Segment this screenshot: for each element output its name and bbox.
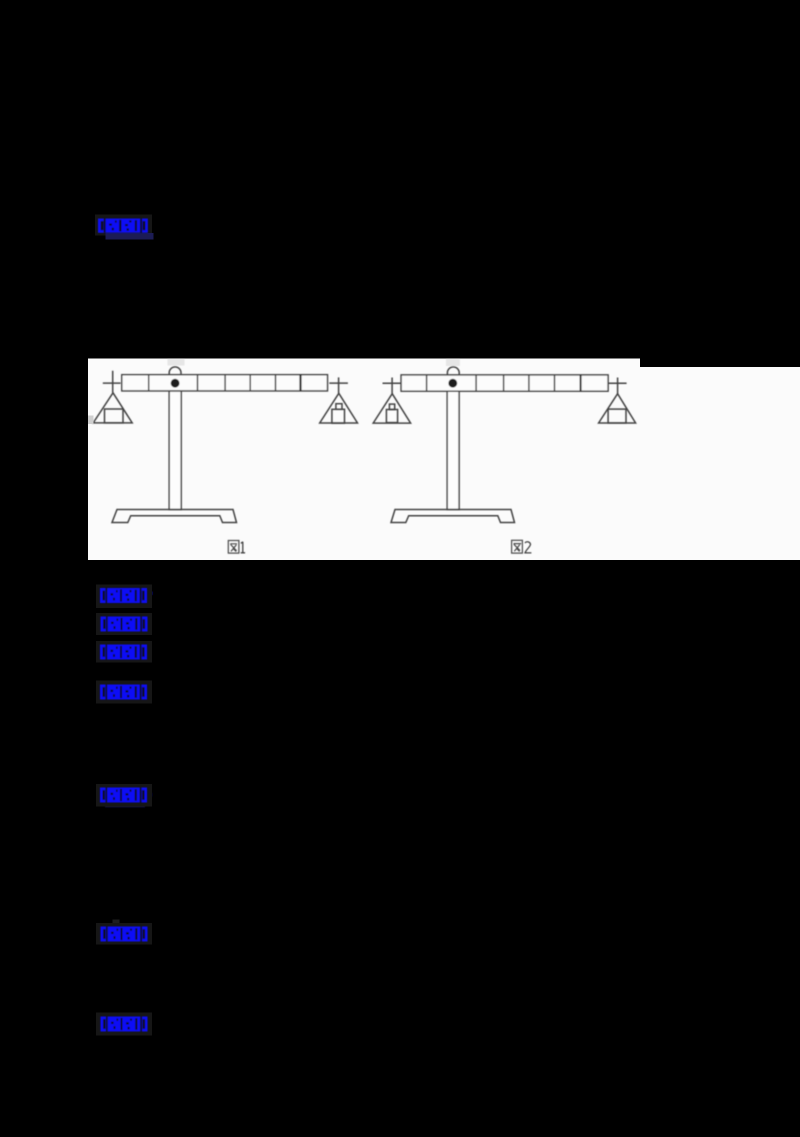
blue label backdrops (faint dark boxes)	[95, 215, 152, 1036]
label 【专题】 (y~617)	[101, 617, 148, 632]
small gray artifact at left edge of white region	[88, 416, 94, 425]
weight knob fig1	[336, 404, 342, 410]
right pan triangle fig1	[320, 393, 358, 423]
navy underline bar below top label	[106, 233, 154, 240]
pillar fig2	[447, 391, 459, 509]
beam fig1	[122, 375, 328, 391]
weight body in right pan fig1	[332, 409, 345, 423]
left pan triangle fig1	[93, 393, 132, 423]
cube in right pan fig2	[608, 409, 626, 423]
gray block above hook fig2	[446, 359, 460, 366]
weight knob fig2	[389, 404, 394, 409]
blue labels: drawn as glyph-mimicking blobs	[98, 219, 148, 1032]
hook ring fig2	[447, 367, 459, 376]
white figure region (main)	[88, 359, 640, 561]
caption 图2	[512, 540, 532, 553]
right hanger fig1	[329, 377, 348, 393]
right hanger fig2	[608, 378, 627, 394]
caption 图1	[228, 541, 245, 554]
label 【答案】 (top, y~218)	[98, 219, 148, 233]
pillar fig1	[169, 391, 181, 510]
label 【解答】 (y~928)	[101, 927, 148, 942]
cube in left pan fig1	[105, 409, 124, 423]
gray block above hook	[168, 359, 185, 366]
pivot dot fig1	[171, 379, 180, 388]
hook ring fig1	[169, 367, 181, 376]
right pan triangle fig2	[599, 394, 636, 423]
navy smudge under label 5	[105, 803, 145, 808]
dark gray block above label 6	[113, 920, 120, 928]
beam dividers fig1	[149, 375, 276, 391]
label 【考点】 (y~588)	[100, 588, 147, 603]
label 【解答】 (y~684)	[100, 685, 147, 700]
left hanger fig2	[383, 378, 402, 394]
base fig1	[112, 510, 237, 523]
left hanger fig1	[103, 371, 121, 393]
pivot dot fig2	[448, 379, 457, 388]
faint artifacts: blue colon specks right of labels	[148, 592, 153, 1024]
base fig2	[391, 510, 515, 523]
white figure region (right extension)	[639, 367, 800, 560]
left pan triangle fig2	[373, 394, 410, 423]
beam fig2	[401, 375, 608, 391]
label 【点评】 (y~788)	[100, 788, 147, 803]
beam dividers fig2	[427, 375, 555, 391]
weight body in left pan fig2	[386, 410, 397, 423]
label 【点评】 (y~1016)	[101, 1017, 148, 1032]
label 【分析】 (y~645)	[100, 645, 147, 660]
